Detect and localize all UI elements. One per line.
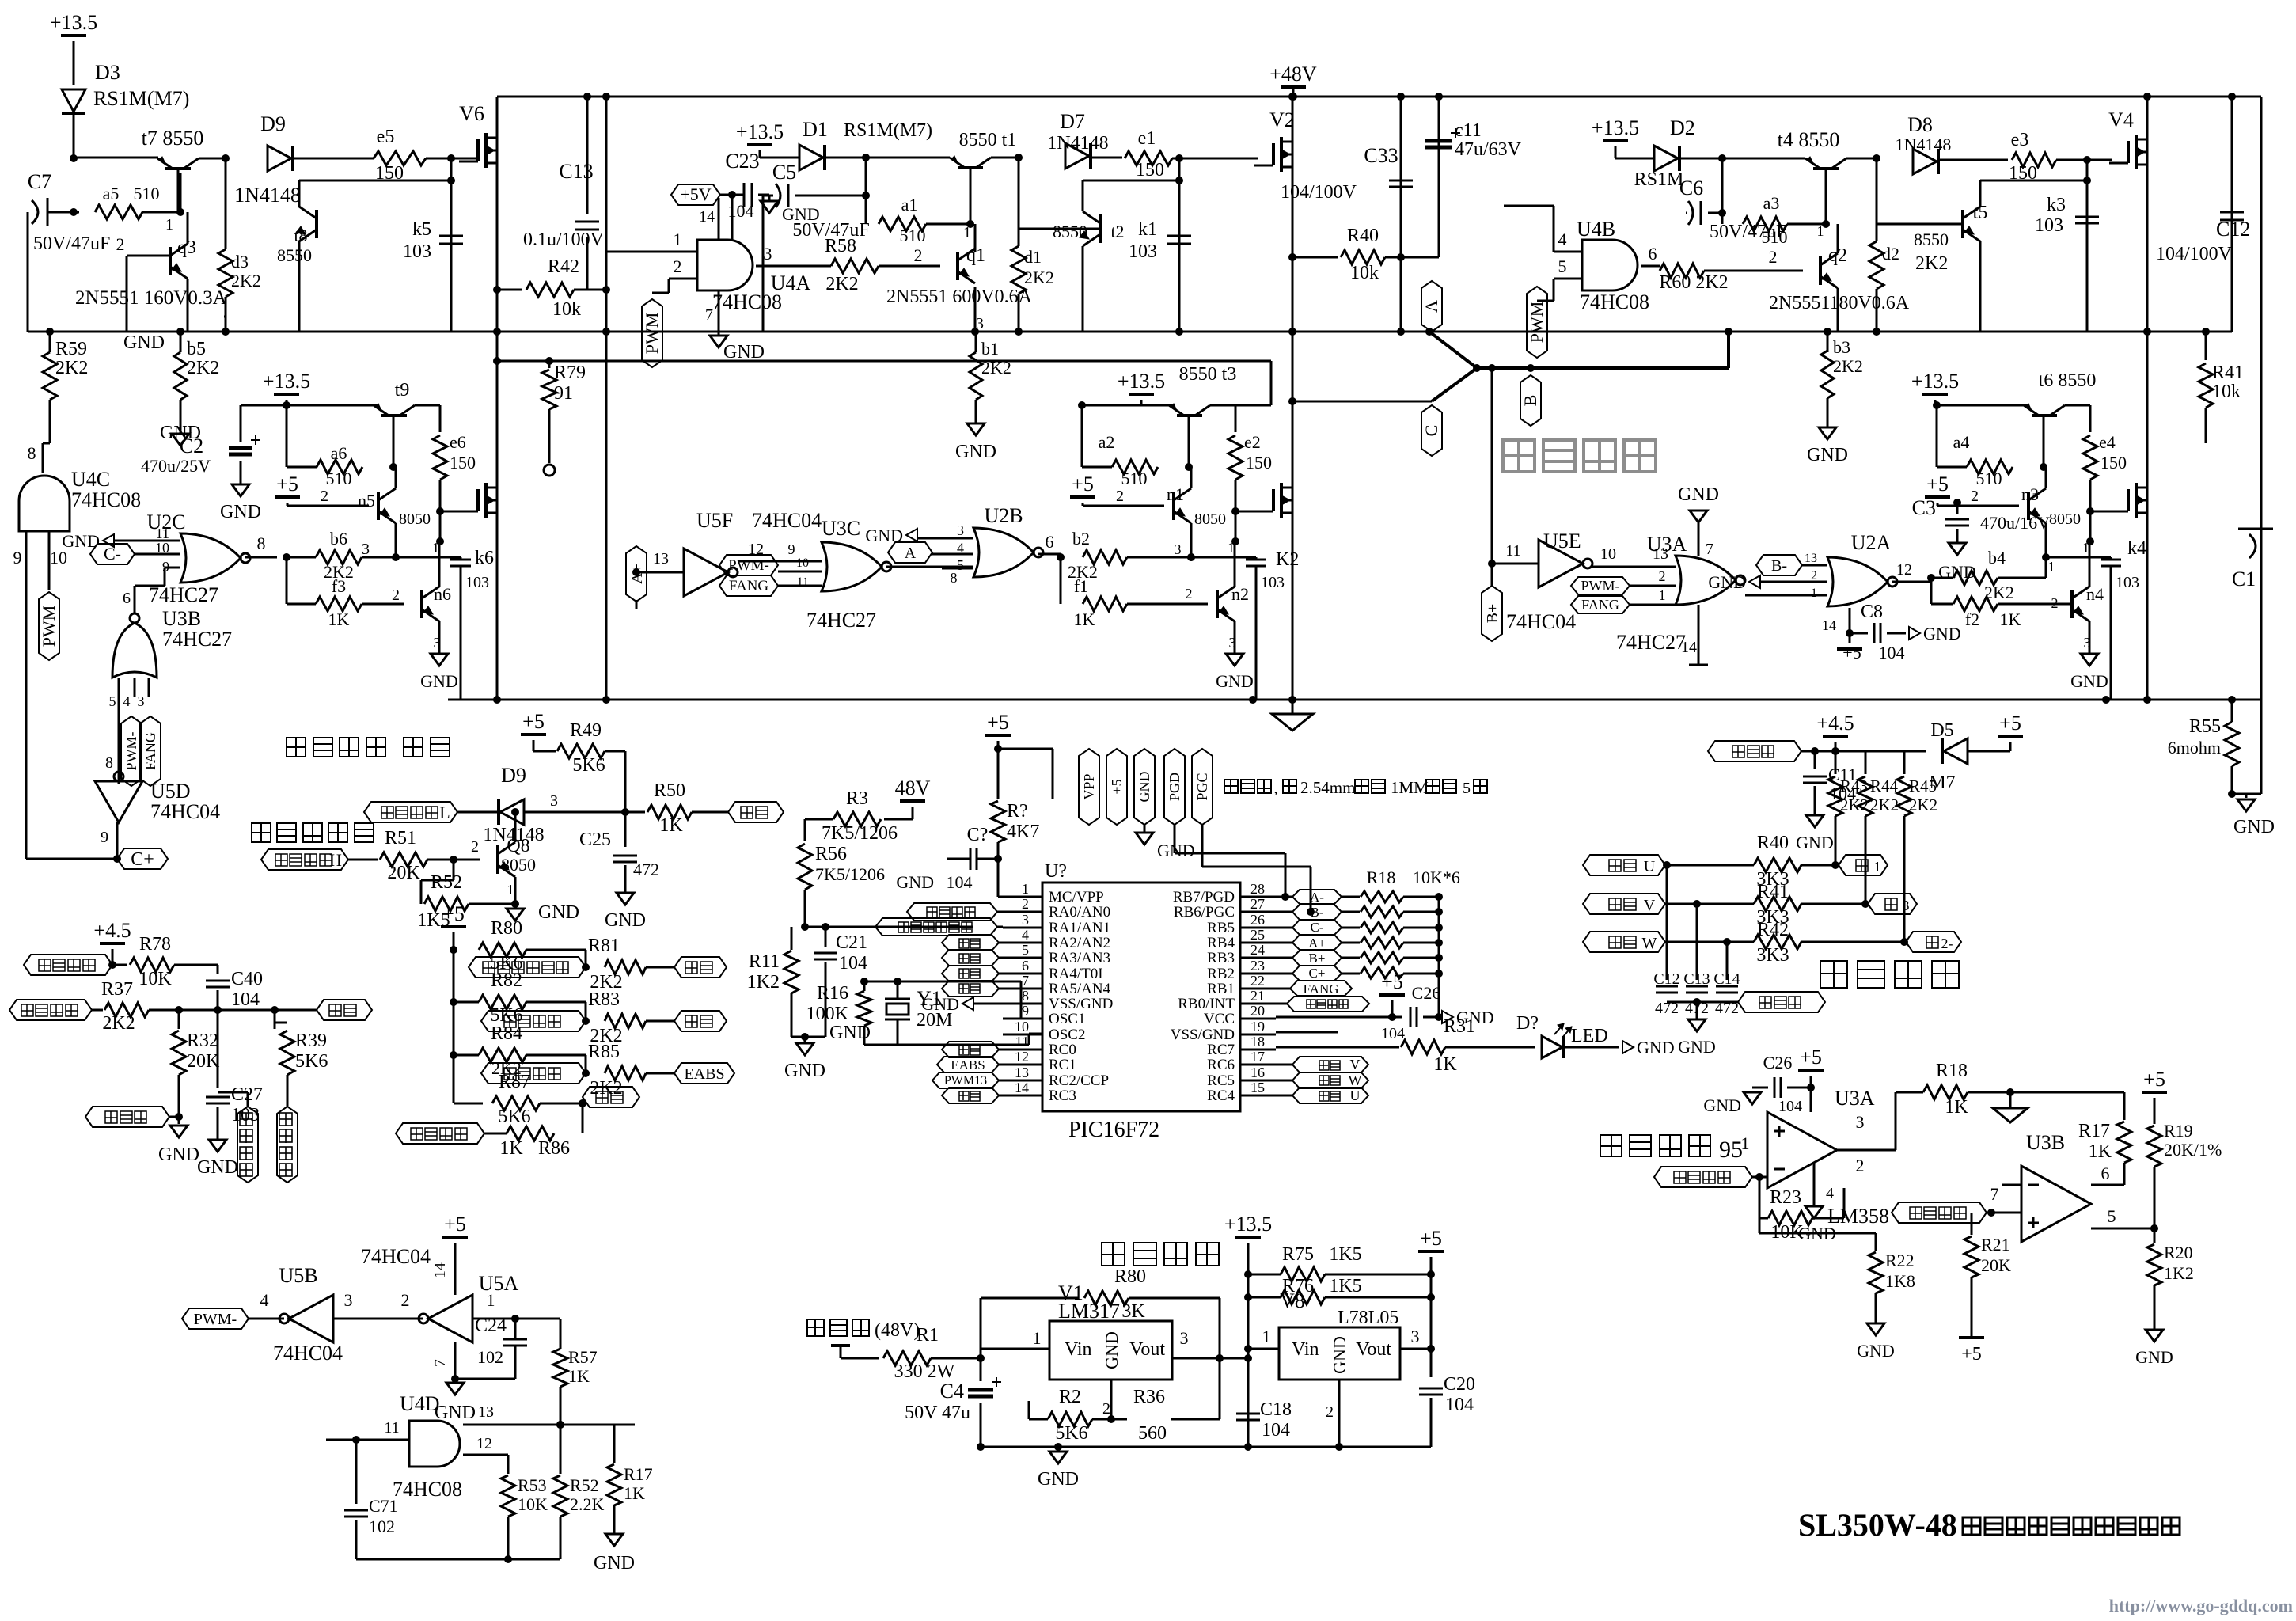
svg-text:b3: b3: [1833, 337, 1850, 357]
svg-text:RB0/INT: RB0/INT: [1178, 996, 1235, 1012]
svg-text:8: 8: [28, 443, 36, 463]
svg-text:2: 2: [2051, 595, 2059, 611]
svg-text:R86: R86: [538, 1138, 570, 1159]
svg-text:n3: n3: [2021, 484, 2039, 504]
svg-text:R45: R45: [1909, 776, 1937, 795]
svg-text:C12: C12: [1653, 970, 1679, 988]
svg-text:8550: 8550: [1053, 222, 1087, 241]
svg-text:GND: GND: [829, 1023, 871, 1043]
svg-text:FANG: FANG: [1581, 597, 1619, 613]
svg-text:2: 2: [1769, 247, 1778, 267]
svg-text:20K: 20K: [187, 1051, 220, 1072]
svg-text:1: 1: [1741, 1133, 1750, 1153]
svg-text:4: 4: [1826, 1185, 1834, 1202]
svg-text:104: 104: [1879, 643, 1905, 662]
svg-text:RB6/PGC: RB6/PGC: [1174, 904, 1235, 921]
svg-text:13: 13: [478, 1403, 494, 1421]
svg-text:LM358: LM358: [1827, 1205, 1889, 1228]
svg-text:103: 103: [1261, 574, 1285, 591]
svg-text:VSS/GND: VSS/GND: [1049, 996, 1113, 1012]
svg-text:11: 11: [156, 526, 169, 541]
svg-text:GND: GND: [197, 1157, 238, 1178]
svg-text:k3: k3: [2047, 195, 2066, 215]
svg-text:t9: t9: [395, 380, 410, 401]
svg-text:7: 7: [431, 1359, 449, 1367]
svg-text:510: 510: [900, 226, 926, 245]
svg-text:6: 6: [2101, 1164, 2110, 1183]
svg-text:470u/16V: 470u/16V: [1980, 513, 2050, 533]
svg-text:e6: e6: [450, 432, 466, 452]
svg-text:R52: R52: [431, 872, 462, 893]
svg-text:15: 15: [1250, 1080, 1265, 1095]
svg-text:R53: R53: [518, 1475, 547, 1495]
svg-text:GND: GND: [160, 423, 201, 443]
svg-text:4: 4: [1558, 230, 1567, 249]
svg-text:6: 6: [1649, 244, 1657, 264]
svg-text:12: 12: [476, 1435, 492, 1452]
svg-text:C5: C5: [772, 161, 796, 184]
svg-text:PWM: PWM: [642, 313, 662, 355]
svg-text:R39: R39: [295, 1031, 327, 1051]
svg-text:D8: D8: [1907, 113, 1933, 136]
svg-text:2K2: 2K2: [231, 271, 261, 290]
svg-text:74HC27: 74HC27: [162, 628, 232, 651]
svg-text:1K: 1K: [1074, 609, 1095, 629]
svg-text:2: 2: [1116, 488, 1124, 505]
svg-text:U: U: [1644, 858, 1656, 875]
svg-text:2K2: 2K2: [1909, 795, 1937, 814]
svg-text:12: 12: [1896, 561, 1912, 579]
svg-text:U3A: U3A: [1647, 533, 1687, 556]
svg-text:RA4/T0I: RA4/T0I: [1049, 966, 1103, 982]
svg-text:7: 7: [1706, 541, 1713, 558]
svg-text:RA1/AN1: RA1/AN1: [1049, 920, 1110, 936]
svg-text:2: 2: [1811, 569, 1817, 583]
svg-text:104: 104: [1778, 1098, 1802, 1115]
svg-text:GND: GND: [123, 332, 165, 353]
svg-text:R82: R82: [491, 970, 522, 991]
svg-text:13: 13: [1015, 1065, 1029, 1080]
svg-text:R81: R81: [588, 936, 620, 956]
svg-text:n2: n2: [1231, 584, 1249, 604]
svg-text:R79: R79: [554, 363, 586, 383]
svg-text:C40: C40: [231, 969, 263, 989]
svg-text:10: 10: [155, 540, 169, 556]
svg-text:PWM-: PWM-: [728, 557, 769, 574]
svg-text:EABS: EABS: [684, 1065, 724, 1083]
svg-text:+13.5: +13.5: [1592, 116, 1639, 139]
svg-text:f1: f1: [1074, 576, 1088, 596]
svg-text:1: 1: [963, 224, 971, 241]
svg-text:R?: R?: [1007, 801, 1028, 822]
svg-text:C14: C14: [1713, 970, 1740, 988]
svg-text:R78: R78: [139, 934, 171, 955]
svg-text:104: 104: [1381, 1025, 1405, 1042]
svg-text:t4 8550: t4 8550: [1778, 128, 1840, 151]
svg-text:R31: R31: [1444, 1016, 1475, 1037]
svg-text:FANG: FANG: [729, 578, 769, 594]
svg-text:GND: GND: [1637, 1038, 1675, 1057]
svg-text:+4.5: +4.5: [93, 919, 131, 942]
svg-text:GND: GND: [782, 204, 820, 224]
svg-text:2: 2: [1971, 488, 1979, 505]
svg-text:1K: 1K: [2089, 1141, 2112, 1162]
svg-text:d2: d2: [1882, 244, 1899, 264]
svg-text:2: 2: [1102, 1400, 1110, 1418]
svg-text:B-: B-: [1311, 905, 1324, 920]
svg-text:V: V: [1350, 1057, 1361, 1072]
svg-text:3: 3: [1903, 898, 1910, 913]
svg-text:C4: C4: [940, 1380, 964, 1403]
svg-text:R41: R41: [1757, 882, 1789, 902]
svg-text:RC6: RC6: [1207, 1057, 1235, 1073]
svg-text:RA0/AN0: RA0/AN0: [1049, 904, 1110, 921]
svg-text:SL350W-48: SL350W-48: [1798, 1507, 1957, 1543]
svg-text:e4: e4: [2099, 432, 2116, 452]
svg-text:D1: D1: [803, 118, 828, 141]
svg-text:8050: 8050: [399, 511, 431, 528]
svg-text:B+: B+: [1484, 604, 1501, 624]
svg-text:1N4148: 1N4148: [1047, 133, 1108, 154]
svg-text:GND: GND: [220, 502, 261, 522]
svg-text:1K: 1K: [1433, 1054, 1457, 1075]
svg-text:4: 4: [123, 693, 131, 709]
svg-text:R50: R50: [654, 780, 685, 801]
svg-text:10k: 10k: [552, 299, 581, 320]
svg-text:2: 2: [674, 256, 682, 276]
svg-text:9: 9: [13, 548, 22, 568]
svg-text:+5: +5: [1842, 643, 1861, 662]
svg-text:74HC04: 74HC04: [150, 800, 220, 823]
svg-text:3: 3: [550, 792, 558, 810]
svg-text:18: 18: [1250, 1034, 1265, 1050]
svg-text:R84: R84: [491, 1023, 522, 1044]
svg-text:74HC08: 74HC08: [712, 290, 782, 313]
svg-text:1: 1: [1811, 587, 1817, 600]
svg-text:GND: GND: [896, 872, 934, 892]
svg-text:a2: a2: [1099, 432, 1115, 452]
svg-text:5K6: 5K6: [498, 1107, 530, 1127]
svg-text:R49: R49: [570, 720, 602, 741]
svg-text:A-: A-: [1310, 890, 1324, 905]
svg-text:U4B: U4B: [1577, 218, 1615, 241]
svg-text:103: 103: [465, 574, 489, 591]
svg-text:D?: D?: [1516, 1013, 1539, 1034]
svg-text:R23: R23: [1770, 1187, 1801, 1208]
svg-text:1: 1: [2048, 559, 2055, 575]
svg-text:+5: +5: [1961, 1344, 1982, 1365]
svg-text:104: 104: [947, 872, 973, 892]
svg-text:2: 2: [1022, 896, 1029, 912]
svg-text:GND: GND: [784, 1061, 825, 1081]
svg-text:C+: C+: [1309, 966, 1326, 981]
svg-text:t6 8550: t6 8550: [2039, 370, 2097, 391]
svg-text:EABS: EABS: [951, 1057, 985, 1072]
svg-text:3: 3: [344, 1290, 353, 1310]
svg-text:1: 1: [165, 216, 173, 233]
svg-text:3K: 3K: [1121, 1301, 1145, 1322]
svg-text:A: A: [1421, 300, 1441, 313]
svg-text:U3C: U3C: [822, 517, 860, 540]
svg-text:a3: a3: [1763, 193, 1780, 213]
svg-text:+13.5: +13.5: [736, 120, 784, 143]
svg-text:14: 14: [431, 1262, 449, 1278]
svg-text:24: 24: [1250, 942, 1265, 958]
svg-text:10k: 10k: [1350, 263, 1379, 283]
svg-text:RC7: RC7: [1207, 1042, 1235, 1058]
svg-text:C26: C26: [1412, 983, 1441, 1003]
svg-text:e1: e1: [1138, 128, 1156, 149]
svg-text:R40: R40: [1757, 833, 1789, 853]
svg-text:GND: GND: [1137, 772, 1152, 803]
svg-text:6: 6: [123, 590, 131, 607]
svg-text:GND: GND: [1708, 572, 1746, 592]
svg-text:10k: 10k: [2212, 382, 2241, 402]
svg-text:GND: GND: [2233, 817, 2275, 837]
svg-text:U3B: U3B: [162, 607, 201, 630]
svg-text:10: 10: [796, 556, 809, 570]
svg-text:RC3: RC3: [1049, 1088, 1076, 1104]
svg-text:C25: C25: [579, 829, 611, 850]
svg-text:74HC04: 74HC04: [752, 509, 822, 532]
svg-text:3: 3: [976, 315, 984, 332]
svg-text:2K2: 2K2: [55, 358, 88, 378]
svg-text:R75: R75: [1282, 1244, 1314, 1265]
svg-text:100K: 100K: [806, 1004, 849, 1024]
svg-text:3: 3: [2084, 635, 2091, 651]
svg-text:7K5/1206: 7K5/1206: [815, 864, 885, 884]
svg-text:RA2/AN2: RA2/AN2: [1049, 935, 1110, 951]
svg-text:+5: +5: [522, 710, 545, 733]
svg-text:RB1: RB1: [1207, 981, 1235, 997]
svg-text:f3: f3: [332, 576, 346, 596]
svg-text:GND: GND: [921, 994, 959, 1014]
svg-text:2K2: 2K2: [102, 1013, 135, 1034]
svg-text:PWM: PWM: [1527, 302, 1546, 344]
svg-text:+5: +5: [444, 1213, 466, 1236]
svg-text:2K2: 2K2: [1840, 795, 1869, 814]
svg-text:14: 14: [1681, 639, 1697, 656]
svg-text:D2: D2: [1670, 116, 1695, 139]
svg-text:6mohm: 6mohm: [2168, 738, 2221, 757]
svg-text:1MM: 1MM: [1391, 778, 1429, 797]
svg-text:GND: GND: [1678, 1037, 1716, 1057]
svg-text:2K2: 2K2: [1024, 268, 1054, 287]
svg-text:8550 t3: 8550 t3: [1179, 364, 1237, 385]
svg-text:12: 12: [1015, 1049, 1029, 1065]
svg-text:U5E: U5E: [1543, 530, 1581, 552]
svg-text:C71: C71: [369, 1496, 398, 1516]
svg-text:+13.5: +13.5: [1911, 370, 1959, 393]
svg-text:Vout: Vout: [1356, 1339, 1391, 1360]
svg-text:2: 2: [914, 245, 923, 265]
svg-text:GND: GND: [1703, 1095, 1741, 1115]
svg-text:R19: R19: [2164, 1121, 2193, 1141]
svg-text:1: 1: [507, 882, 514, 898]
svg-text:150: 150: [450, 453, 476, 473]
svg-text:GND: GND: [1102, 1331, 1121, 1369]
svg-text:10: 10: [1015, 1019, 1029, 1034]
svg-text:R51: R51: [385, 828, 416, 848]
svg-text:8050: 8050: [2049, 511, 2081, 528]
svg-text:3: 3: [1180, 1328, 1189, 1348]
svg-text:1K5: 1K5: [1329, 1276, 1361, 1296]
svg-text:10K: 10K: [518, 1494, 548, 1514]
svg-text:e2: e2: [1244, 432, 1261, 452]
svg-text:2K2: 2K2: [981, 358, 1011, 378]
svg-text:RC5: RC5: [1207, 1072, 1235, 1089]
svg-text:C20: C20: [1444, 1374, 1475, 1395]
svg-text:U3A: U3A: [1835, 1087, 1875, 1110]
svg-text:C?: C?: [967, 825, 989, 845]
svg-text:a1: a1: [901, 195, 918, 214]
svg-text:+5: +5: [1999, 712, 2021, 735]
svg-text:R60 2K2: R60 2K2: [1659, 272, 1728, 293]
svg-text:V: V: [1644, 897, 1656, 914]
svg-text:150: 150: [2101, 453, 2127, 473]
svg-text:R87: R87: [499, 1072, 530, 1092]
svg-text:7K5/1206: 7K5/1206: [822, 823, 898, 844]
svg-text:A: A: [905, 545, 917, 562]
svg-text:13: 13: [1805, 552, 1817, 565]
svg-text:2: 2: [321, 488, 328, 505]
svg-text:74HC04: 74HC04: [361, 1245, 431, 1268]
svg-text:1: 1: [674, 230, 682, 249]
svg-text:R21: R21: [1981, 1235, 2010, 1255]
svg-text:W: W: [1642, 935, 1657, 952]
svg-text:R59: R59: [55, 339, 87, 359]
svg-text:8550: 8550: [277, 245, 312, 265]
svg-text:9: 9: [1022, 1003, 1029, 1019]
svg-text:VPP: VPP: [1081, 773, 1097, 799]
svg-text:C24: C24: [475, 1315, 507, 1336]
svg-text:Vout: Vout: [1129, 1339, 1165, 1360]
svg-text:R42: R42: [1757, 920, 1789, 940]
svg-text:V6: V6: [459, 102, 484, 125]
svg-text:3: 3: [957, 522, 964, 538]
svg-text:t8: t8: [294, 226, 307, 245]
svg-text:5: 5: [1558, 256, 1567, 276]
svg-text:RC2/CCP: RC2/CCP: [1049, 1072, 1109, 1089]
svg-text:U5B: U5B: [279, 1264, 317, 1287]
svg-text:OSC1: OSC1: [1049, 1011, 1085, 1027]
svg-text:n6: n6: [434, 584, 451, 604]
svg-text:Vin: Vin: [1065, 1339, 1092, 1360]
svg-text:4: 4: [957, 540, 964, 556]
svg-text:GND: GND: [1807, 445, 1848, 465]
svg-text:n1: n1: [1167, 484, 1184, 504]
svg-text:LED: LED: [1571, 1026, 1608, 1046]
svg-text:2.54mm: 2.54mm: [1300, 778, 1355, 797]
svg-text:74HC27: 74HC27: [806, 609, 876, 632]
svg-text:GND: GND: [955, 442, 996, 462]
svg-text:1: 1: [487, 1290, 495, 1310]
svg-text:k5: k5: [412, 219, 431, 240]
svg-text:95: 95: [1719, 1137, 1743, 1163]
svg-text:C3: C3: [1912, 496, 1936, 519]
svg-text:150: 150: [1136, 160, 1164, 180]
svg-text:+5: +5: [1381, 970, 1403, 993]
svg-text:R56: R56: [815, 844, 847, 864]
svg-text:47u/63V: 47u/63V: [1455, 139, 1522, 160]
svg-text:2.2K: 2.2K: [570, 1494, 605, 1514]
svg-text:+5: +5: [1926, 473, 1949, 495]
svg-text:PWM-: PWM-: [1581, 578, 1620, 594]
svg-text:R36: R36: [1133, 1387, 1165, 1407]
svg-text:470u/25V: 470u/25V: [141, 456, 211, 476]
svg-text:3: 3: [764, 244, 772, 264]
svg-text:C6: C6: [1679, 177, 1703, 199]
svg-text:1K2: 1K2: [747, 972, 780, 993]
svg-text:R18: R18: [1367, 867, 1396, 887]
svg-text:L: L: [439, 803, 450, 822]
svg-text:+5: +5: [1109, 779, 1125, 794]
svg-text:1K: 1K: [624, 1483, 645, 1503]
svg-text:10K: 10K: [139, 969, 172, 989]
svg-text:U5F: U5F: [696, 509, 733, 532]
svg-text:0.1u/100V: 0.1u/100V: [523, 230, 605, 250]
svg-text:GND: GND: [158, 1145, 199, 1165]
svg-text:V8: V8: [1280, 1289, 1305, 1312]
svg-text:104/100V: 104/100V: [2156, 244, 2233, 264]
svg-text:50V 47u: 50V 47u: [905, 1403, 970, 1423]
svg-text:3: 3: [1022, 912, 1029, 928]
svg-text:d1: d1: [1024, 247, 1042, 267]
svg-text:4K7: 4K7: [1007, 822, 1039, 842]
svg-text:8: 8: [951, 570, 958, 586]
svg-text:8: 8: [1022, 988, 1029, 1004]
svg-text:20: 20: [1250, 1003, 1265, 1019]
svg-text:22: 22: [1250, 973, 1265, 989]
svg-text:1K: 1K: [568, 1366, 590, 1386]
svg-text:+5: +5: [2143, 1068, 2165, 1091]
svg-text:50V/47uF: 50V/47uF: [33, 233, 110, 254]
svg-text:GND: GND: [1157, 841, 1195, 860]
svg-text:b5: b5: [187, 339, 206, 359]
svg-text:RB4: RB4: [1207, 935, 1235, 951]
svg-text:R17: R17: [624, 1464, 653, 1484]
svg-text:R58: R58: [825, 236, 856, 256]
svg-text:A+: A+: [1308, 936, 1326, 951]
svg-text:D9: D9: [260, 112, 286, 135]
svg-text:Vin: Vin: [1292, 1339, 1319, 1360]
svg-text:5K6: 5K6: [572, 755, 605, 776]
svg-text:PWM13: PWM13: [944, 1074, 987, 1088]
svg-text:5: 5: [957, 557, 964, 573]
svg-text:6: 6: [1022, 958, 1029, 974]
svg-text:K2: K2: [1276, 549, 1299, 570]
svg-text:V4: V4: [2108, 108, 2134, 131]
svg-text:20K: 20K: [1981, 1255, 2011, 1275]
svg-text:1K: 1K: [328, 609, 350, 629]
svg-text:U2B: U2B: [984, 504, 1023, 527]
svg-text:RB2: RB2: [1207, 966, 1235, 982]
svg-text:3: 3: [1856, 1112, 1865, 1132]
svg-text:8050: 8050: [501, 855, 536, 875]
svg-text:8550: 8550: [1914, 230, 1949, 249]
svg-text:104/100V: 104/100V: [1281, 182, 1357, 203]
svg-text:RS1M(M7): RS1M(M7): [844, 120, 932, 141]
svg-text:510: 510: [326, 469, 352, 488]
svg-text:20K: 20K: [387, 863, 420, 883]
svg-text:R43: R43: [1840, 776, 1868, 795]
svg-text:+13.5: +13.5: [263, 370, 310, 393]
svg-text:102: 102: [477, 1347, 503, 1367]
svg-text:RB7/PGD: RB7/PGD: [1173, 889, 1235, 905]
svg-text:2K2: 2K2: [1915, 253, 1948, 274]
svg-text:,: ,: [1274, 780, 1278, 797]
svg-text:14: 14: [1822, 617, 1836, 633]
